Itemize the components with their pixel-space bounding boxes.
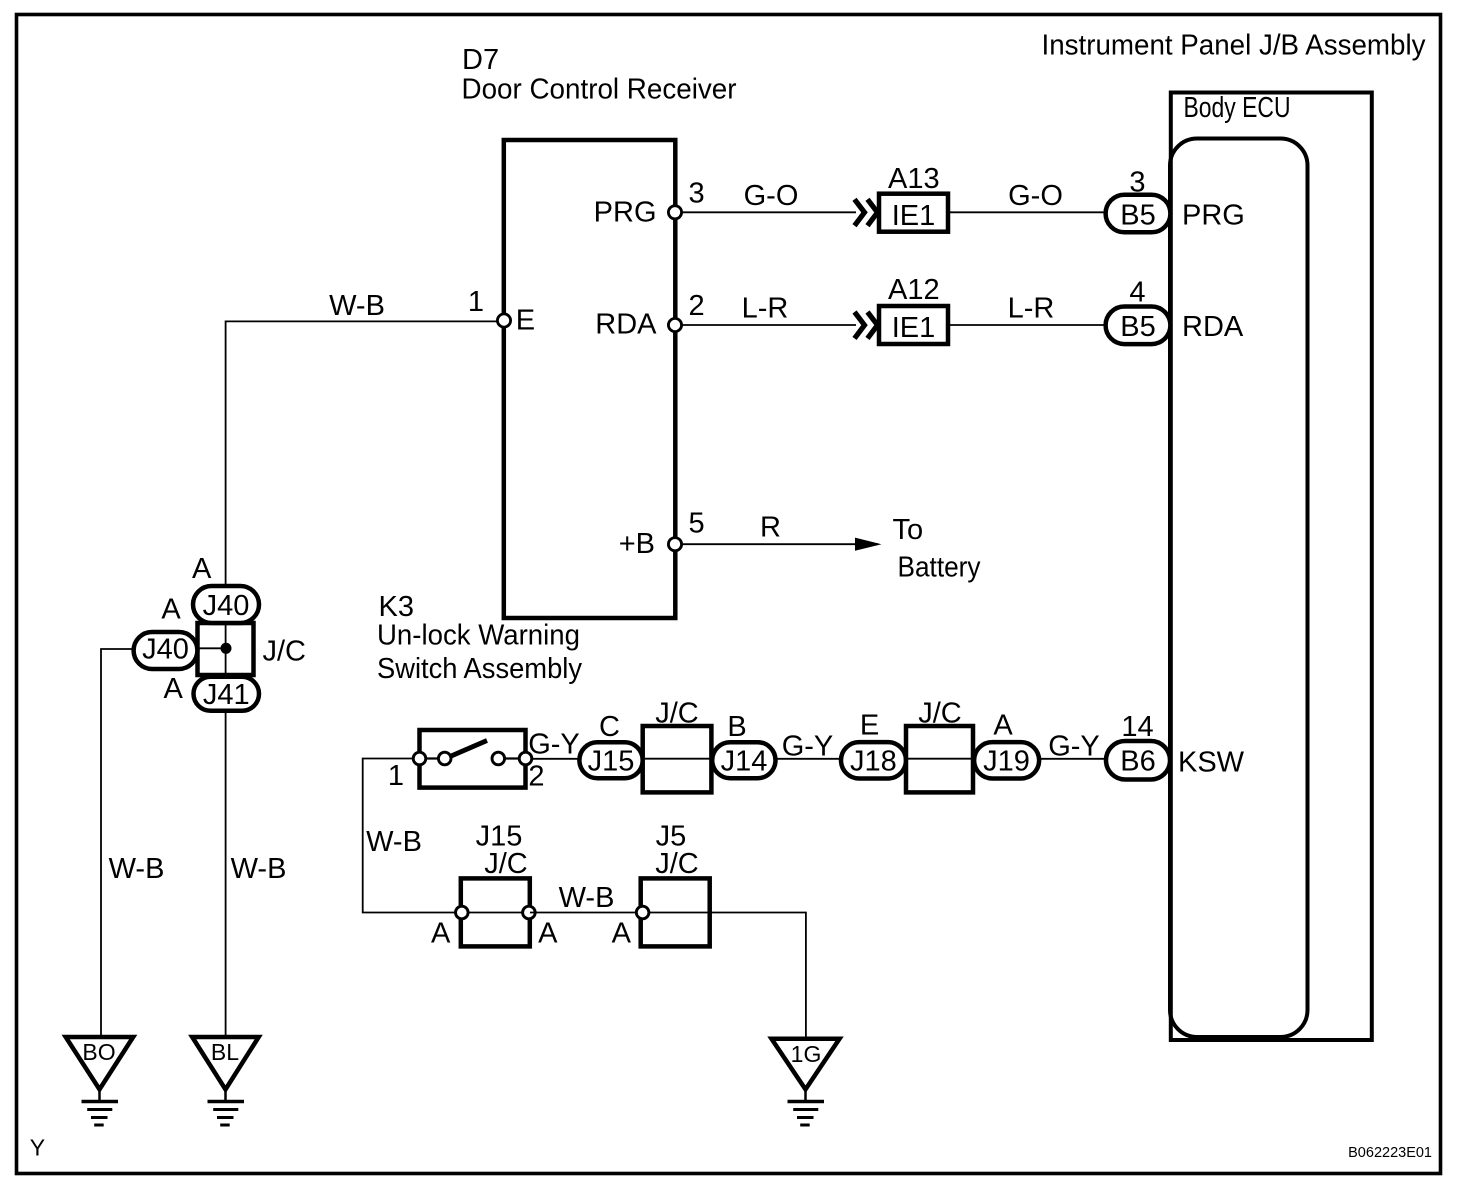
wire: RDA row (pin 2 to IE1) [675, 324, 856, 326]
svg-text:3: 3 [1129, 167, 1145, 199]
svg-text:J18: J18 [850, 745, 897, 777]
ground BO [66, 1037, 134, 1125]
wire: J19 to B6 [1039, 758, 1106, 760]
svg-text:Body ECU: Body ECU [1184, 92, 1291, 124]
wire: left J40 to junction dot [197, 647, 226, 649]
svg-text:A: A [538, 918, 558, 950]
svg-text:E: E [516, 305, 535, 337]
svg-text:A: A [164, 673, 184, 705]
svg-text:J/C: J/C [918, 698, 962, 730]
svg-text:B062223E01: B062223E01 [1348, 1145, 1432, 1161]
wire: +B to battery with arrow [675, 543, 878, 545]
svg-text:L-R: L-R [1008, 293, 1055, 325]
svg-text:A: A [431, 918, 451, 950]
pin 2 of D7 [668, 318, 681, 331]
pin 1 E of D7 [497, 314, 510, 327]
svg-text:W-B: W-B [109, 853, 165, 885]
svg-text:RDA: RDA [1182, 311, 1244, 343]
connector A12 IE1 box [879, 306, 948, 344]
svg-text:J19: J19 [983, 745, 1030, 777]
svg-text:W-B: W-B [366, 826, 422, 858]
connector B5 oval (RDA) [1106, 307, 1171, 345]
svg-text:G-Y: G-Y [782, 731, 834, 763]
svg-text:Instrument Panel J/B Assembly: Instrument Panel J/B Assembly [1042, 30, 1426, 62]
svg-text:W-B: W-B [231, 853, 287, 885]
svg-text:J41: J41 [203, 679, 250, 711]
svg-text:A13: A13 [888, 163, 940, 195]
svg-text:E: E [860, 710, 879, 742]
svg-text:J40: J40 [203, 590, 250, 622]
svg-text:KSW: KSW [1178, 747, 1245, 779]
svg-text:A: A [161, 593, 181, 625]
svg-text:14: 14 [1121, 711, 1153, 743]
wire: switch internal stubs [420, 757, 446, 759]
svg-text:J14: J14 [721, 745, 768, 777]
svg-text:A: A [192, 553, 212, 585]
wire: W-B from pin 1 E going left and down to J40 [226, 321, 504, 586]
wire: through J15 J/C box [461, 912, 530, 914]
svg-text:Y: Y [30, 1135, 45, 1161]
ground BL [192, 1037, 259, 1125]
svg-text:J/C: J/C [655, 698, 699, 730]
svg-text:G-Y: G-Y [528, 729, 580, 761]
wire: J14 to J18 [776, 758, 842, 760]
wire: IE1 to B5 (PRG row) [948, 211, 1106, 213]
wire: J15 J/C to J5 J/C [530, 912, 642, 914]
wire: vertical through J/C square from J40 to J41 [225, 620, 227, 678]
svg-text:K3: K3 [379, 591, 414, 623]
wire: switch pin1 left, down, to J15 J/C box [363, 759, 462, 913]
wire: switch pin2 to J15 [531, 758, 580, 760]
svg-text:IE1: IE1 [892, 312, 936, 344]
pin A (J15 J/C right) [523, 906, 536, 919]
connector J14 oval [712, 742, 775, 778]
wire: PRG row (pin 3 to IE1) [675, 211, 856, 213]
connector J40 oval (left) [134, 632, 198, 669]
svg-text:+B: +B [619, 528, 655, 560]
svg-text:A: A [993, 710, 1013, 742]
svg-text:RDA: RDA [595, 309, 657, 341]
pin 5 of D7 [668, 538, 681, 551]
ground 1G [772, 1039, 840, 1125]
svg-text:Battery: Battery [898, 552, 981, 584]
wire: mid line through J/C box 2 [906, 758, 973, 760]
svg-text:IE1: IE1 [892, 200, 936, 232]
svg-text:2: 2 [528, 761, 544, 793]
svg-text:J/C: J/C [484, 848, 528, 880]
svg-text:J/C: J/C [655, 848, 699, 880]
svg-text:J15: J15 [588, 745, 635, 777]
junction J/C cluster: wire from left J40 going left and down to BO ground [101, 649, 134, 1037]
switch contact left [438, 752, 451, 765]
wire: through J5 J/C box and to 1G ground [643, 913, 806, 1039]
svg-text:A: A [612, 918, 632, 950]
connector B6 oval [1106, 741, 1170, 780]
svg-text:L-R: L-R [742, 293, 789, 325]
wire: mid line through J/C box 1 [643, 758, 712, 760]
connector J40 oval (top) [193, 586, 259, 623]
svg-text:5: 5 [689, 508, 705, 540]
junction J/C box 1 [643, 726, 712, 792]
junction J/C box 2 [906, 726, 973, 792]
svg-text:D7: D7 [462, 44, 499, 76]
component: Instrument Panel J/B box [1171, 93, 1372, 1041]
svg-text:B: B [727, 711, 746, 743]
svg-text:J/C: J/C [263, 635, 307, 667]
connector chevrons A12 [855, 312, 878, 338]
pin 3 of D7 [668, 206, 681, 219]
component K3 switch box [420, 730, 526, 788]
svg-text:BO: BO [82, 1039, 115, 1065]
switch lever [450, 741, 487, 757]
pin A (J15 J/C left) [456, 906, 469, 919]
svg-text:Un-lock Warning: Un-lock Warning [377, 620, 580, 652]
junction J/C square [198, 623, 254, 675]
svg-text:J40: J40 [142, 633, 189, 665]
svg-text:R: R [760, 512, 781, 544]
svg-text:BL: BL [211, 1039, 239, 1065]
svg-text:PRG: PRG [1182, 199, 1245, 231]
svg-text:A12: A12 [888, 274, 940, 306]
svg-text:3: 3 [689, 177, 705, 209]
pin 1 of switch [413, 752, 426, 765]
wire: IE1 to B5 (RDA row) [948, 324, 1106, 326]
svg-text:Switch Assembly: Switch Assembly [377, 653, 582, 685]
svg-text:To: To [893, 514, 924, 546]
svg-text:B5: B5 [1120, 199, 1155, 231]
svg-text:1: 1 [388, 760, 404, 792]
svg-text:B6: B6 [1120, 745, 1155, 777]
svg-text:G-O: G-O [744, 180, 799, 212]
connector J15 oval [579, 742, 642, 778]
wire: J41 down to BL ground [225, 709, 227, 1037]
junction J5 J/C box [641, 878, 710, 946]
pin 2 of switch [519, 752, 532, 765]
svg-text:G-Y: G-Y [1048, 731, 1100, 763]
svg-text:1: 1 [468, 286, 484, 318]
switch contact right [492, 752, 505, 765]
svg-text:PRG: PRG [594, 196, 657, 228]
connector B5 oval (PRG) [1106, 195, 1171, 233]
junction J15 J/C box [461, 878, 530, 946]
component: Body ECU rounded box [1170, 139, 1308, 1038]
svg-text:1G: 1G [791, 1041, 822, 1067]
connector J18 oval [841, 742, 906, 778]
connector chevrons A13 [855, 199, 878, 225]
component D7 Door Control Receiver box [504, 140, 676, 618]
pin A (J5 J/C) [636, 906, 649, 919]
connector A13 IE1 box [879, 194, 948, 232]
junction dot [221, 643, 232, 654]
connector J41 oval [194, 677, 260, 711]
connector J19 oval [974, 742, 1039, 778]
svg-text:Door Control Receiver: Door Control Receiver [462, 74, 737, 106]
svg-text:G-O: G-O [1008, 180, 1063, 212]
svg-text:C: C [599, 711, 620, 743]
svg-text:W-B: W-B [559, 882, 615, 914]
svg-text:2: 2 [689, 290, 705, 322]
svg-text:W-B: W-B [329, 290, 385, 322]
svg-text:B5: B5 [1120, 311, 1155, 343]
svg-text:4: 4 [1129, 277, 1145, 309]
